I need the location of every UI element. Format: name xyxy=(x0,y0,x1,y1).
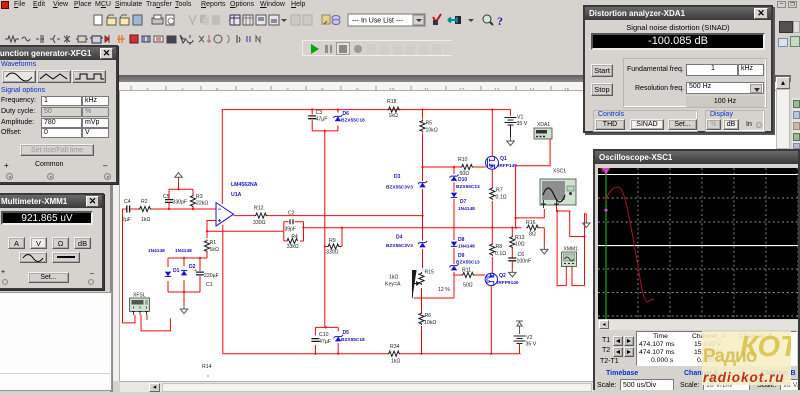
svg-text:D9: D9 xyxy=(458,253,465,259)
svg-text:50Ω: 50Ω xyxy=(463,283,473,289)
wire XFG1 minus stub xyxy=(146,315,148,320)
svg-text:BZX55C13: BZX55C13 xyxy=(456,260,480,266)
ground scope xyxy=(582,219,591,228)
wire C10 D5 box top xyxy=(315,326,338,328)
node xmm tap xyxy=(556,210,558,212)
svg-text:IRFP9140: IRFP9140 xyxy=(497,280,519,286)
wire plus input down xyxy=(207,221,216,239)
wire D4 to R15 xyxy=(422,249,424,268)
svg-text:R15: R15 xyxy=(425,270,435,276)
svg-text:1N4148: 1N4148 xyxy=(458,206,475,212)
svg-text:10Ω: 10Ω xyxy=(515,242,525,248)
node R9 tap xyxy=(341,227,343,229)
resistor R34 xyxy=(388,351,401,356)
wire V2 to rail xyxy=(519,344,521,354)
wire R6 to rail xyxy=(421,326,423,354)
wire D5 bottom lead xyxy=(337,343,339,354)
ground R16 xyxy=(540,245,549,254)
svg-text:R1: R1 xyxy=(210,240,217,246)
resistor R4 xyxy=(287,238,298,243)
capacitor C4 xyxy=(127,206,130,213)
svg-text:C6: C6 xyxy=(518,252,525,258)
top dark border of workspace xyxy=(110,75,791,82)
wire node to R8 xyxy=(491,228,493,244)
node box bottom xyxy=(324,130,326,132)
magnifier + help xyxy=(483,15,491,23)
wire XMM1 right lead xyxy=(572,237,585,286)
wire top supply rail xyxy=(222,109,511,111)
wire op-amp output xyxy=(234,215,255,217)
svg-text:LM4562NA: LM4562NA xyxy=(231,182,258,188)
svg-text:R34: R34 xyxy=(390,344,400,350)
wire C6 to ground xyxy=(511,261,513,269)
wire XMM1 left lead xyxy=(557,211,566,286)
ERC / transfer icons xyxy=(433,14,441,22)
svg-text:R13: R13 xyxy=(515,235,525,241)
svg-text:R2: R2 xyxy=(141,199,148,205)
waveform channel A xyxy=(606,187,654,302)
wire C3 D6 box xyxy=(312,110,338,131)
ground clamp xyxy=(180,305,189,314)
svg-text:1N4148: 1N4148 xyxy=(458,244,475,250)
svg-text:1N4148: 1N4148 xyxy=(148,248,165,254)
wire R8 to Q2 source xyxy=(491,257,493,273)
In Use List combo xyxy=(348,14,425,26)
svg-text:100nF: 100nF xyxy=(517,259,532,265)
wire gate line xyxy=(423,166,463,168)
svg-text:12 %: 12 % xyxy=(438,287,450,293)
wire bottom rail right xyxy=(401,353,521,355)
wire D9 bottom lead xyxy=(453,272,455,275)
svg-text:D7: D7 xyxy=(460,199,467,205)
svg-text:V2: V2 xyxy=(526,335,532,341)
wire R5 top lead xyxy=(422,110,424,119)
capacitor C7 39pF xyxy=(290,219,293,224)
zener D9 BZX55C13 xyxy=(451,266,457,271)
wire to ground xyxy=(183,292,185,307)
ground V1 xyxy=(506,137,515,146)
svg-text:0.1Ω: 0.1Ω xyxy=(495,251,506,257)
terminal arrow V2 xyxy=(516,321,523,334)
wire D10-D7 xyxy=(453,183,455,192)
wire op-amp V+ to top rail xyxy=(221,110,223,204)
svg-text:C2: C2 xyxy=(288,211,295,217)
battery V1 xyxy=(505,118,517,126)
instrument XFG1 icon xyxy=(130,298,150,315)
svg-text:1kΩ: 1kΩ xyxy=(389,113,398,119)
transistor Q1 IRFP140 xyxy=(486,156,499,169)
wire XFG1 common xyxy=(141,315,170,331)
readouts xyxy=(636,331,797,366)
scope display xyxy=(598,168,799,319)
svg-text:R7: R7 xyxy=(496,188,503,194)
wire main output node xyxy=(304,227,521,229)
svg-text:XSC1: XSC1 xyxy=(553,169,566,175)
wire C5 bottom lead xyxy=(168,203,170,209)
svg-text:XFSL: XFSL xyxy=(133,293,146,299)
resistor R9 xyxy=(327,244,340,249)
resistor R5 xyxy=(420,120,425,133)
wire long vertical feedback column xyxy=(324,131,326,328)
diode D1 1N4148 xyxy=(165,272,171,277)
wire scope B to ground loop xyxy=(557,206,587,237)
resistor R12 xyxy=(255,213,268,218)
wire Q1 source to R7 xyxy=(491,169,493,187)
svg-text:2µF: 2µF xyxy=(122,217,131,223)
svg-text:1kΩ: 1kΩ xyxy=(391,359,400,365)
bottom controls xyxy=(606,370,638,377)
wire stub xyxy=(134,314,136,316)
wire XDA1 input xyxy=(516,139,551,228)
wire R9 left lead xyxy=(325,246,328,248)
svg-text:C1: C1 xyxy=(206,282,213,288)
svg-text:BZX55C13: BZX55C13 xyxy=(456,184,480,190)
zener D5 BZX55C18 xyxy=(335,337,341,342)
svg-text:R18: R18 xyxy=(387,99,397,105)
wire D1 leads xyxy=(167,258,169,292)
wire op-amp V- to bottom rail xyxy=(222,225,224,354)
canvas white xyxy=(120,91,776,381)
node R7R8 xyxy=(491,227,493,229)
wire R13 to C6 xyxy=(511,249,513,258)
wire D7 to D8 xyxy=(453,199,455,240)
wire clamp bottom xyxy=(168,291,200,293)
capacitor C3 xyxy=(308,116,316,119)
wire C2 to zener column xyxy=(291,215,422,217)
capacitor C6 xyxy=(508,258,516,261)
node R13 tap xyxy=(511,227,513,229)
wire C1 leads xyxy=(199,258,201,292)
wire R11 to Q2 gate xyxy=(475,274,486,276)
wire gate to D3 xyxy=(422,167,424,181)
wire node to D4 xyxy=(422,216,424,241)
node scope A xyxy=(515,217,517,219)
node xmm tap2 xyxy=(583,235,585,237)
svg-text:D5: D5 xyxy=(343,330,350,336)
node R9 column xyxy=(324,245,326,247)
svg-text:R12: R12 xyxy=(254,206,264,212)
svg-text:R4: R4 xyxy=(291,234,298,240)
wire box to output node xyxy=(302,227,304,229)
wire ground stem scope xyxy=(585,214,587,219)
node clamp top xyxy=(183,257,185,259)
node D10 top xyxy=(453,166,455,168)
node C3 top xyxy=(311,109,313,111)
svg-text:BZX55C18: BZX55C18 xyxy=(341,118,365,124)
wire ground stem xyxy=(178,181,180,189)
svg-text:U1A: U1A xyxy=(231,192,242,198)
svg-text:C3: C3 xyxy=(316,110,323,116)
svg-text:IRFP140: IRFP140 xyxy=(498,163,517,169)
sim toolbar xyxy=(302,40,452,56)
wire R2 to op-amp minus input xyxy=(152,208,217,210)
wire C10 leads xyxy=(314,327,316,353)
node C10 bottom xyxy=(314,353,316,355)
capacitor C1 220uF xyxy=(196,272,204,275)
svg-text:22kΩ: 22kΩ xyxy=(196,201,208,207)
wire R7 to output node xyxy=(491,201,493,228)
svg-text:1N4148: 1N4148 xyxy=(175,248,192,254)
node clamp bottom xyxy=(183,291,185,293)
cut/copy/paste grayed xyxy=(189,15,196,25)
wire D5 top lead xyxy=(337,327,339,331)
svg-text:1kΩ: 1kΩ xyxy=(210,247,219,253)
wire R5 to gate line xyxy=(422,134,424,168)
node D6 top xyxy=(337,109,339,111)
svg-text:35 V: 35 V xyxy=(526,342,537,348)
svg-text:R9: R9 xyxy=(329,238,336,244)
node D5 bottom xyxy=(337,353,339,355)
svg-text:BZX55C18: BZX55C18 xyxy=(341,337,365,343)
wire D10 top lead xyxy=(453,167,455,174)
svg-text:35 V: 35 V xyxy=(517,121,528,127)
zener D10 BZX55C13 xyxy=(451,176,457,181)
svg-text:C10: C10 xyxy=(319,332,329,338)
resistor R13 xyxy=(510,236,515,249)
wire scope A tap xyxy=(516,209,544,218)
ground C6 xyxy=(508,268,517,277)
instrument XSC1 icon xyxy=(540,179,576,208)
svg-text:10kΩ: 10kΩ xyxy=(424,320,436,326)
node C1 top xyxy=(199,257,201,259)
svg-text:220µF: 220µF xyxy=(204,273,219,279)
node sense tap xyxy=(515,227,517,229)
svg-text:8Ω: 8Ω xyxy=(529,232,536,238)
wire R4-C7 box xyxy=(284,222,304,241)
diode D7 1N4148 xyxy=(451,193,457,198)
wire Q2 drain to rail xyxy=(490,286,492,354)
svg-text:C4: C4 xyxy=(124,199,131,205)
wire D8 to D9 xyxy=(453,248,455,264)
svg-text:330pF: 330pF xyxy=(173,200,188,206)
resistor R1 xyxy=(204,240,209,253)
svg-text:Q1: Q1 xyxy=(500,156,507,162)
potentiometer R15 xyxy=(419,272,424,285)
resistor R3 xyxy=(190,195,195,208)
scrollbar xyxy=(598,320,799,330)
wire D9 to R11 xyxy=(454,274,463,276)
instrument XDA1 icon xyxy=(534,128,552,139)
node R6 bottom xyxy=(420,353,422,355)
svg-text:R8: R8 xyxy=(496,244,503,250)
wire R15 to R6 xyxy=(421,288,423,312)
resistor R11 xyxy=(462,272,475,277)
wire R10 to Q1 gate xyxy=(474,166,486,168)
svg-text:D1: D1 xyxy=(173,268,180,274)
wire feedback to R4 box xyxy=(207,230,283,232)
svg-text:D6: D6 xyxy=(343,111,350,117)
resistor R6 xyxy=(419,312,424,325)
wire D3 to node xyxy=(422,189,424,216)
resistor R10 xyxy=(461,164,474,169)
svg-text:39pF: 39pF xyxy=(285,226,296,232)
node Q1 drain top xyxy=(491,109,493,111)
node gate line left xyxy=(421,166,423,168)
svg-text:33kΩ: 33kΩ xyxy=(287,244,299,250)
svg-text:1kΩ: 1kΩ xyxy=(141,217,150,223)
node box top xyxy=(325,326,327,328)
transistor Q2 IRFP9140 xyxy=(485,273,497,286)
zener D4 BZX55C3V3 xyxy=(419,243,425,248)
node feedback xyxy=(206,230,208,232)
print/preview xyxy=(152,18,163,24)
svg-text:47µF: 47µF xyxy=(319,339,331,345)
right sliver: window buttons / scrollbar / instrument strip xyxy=(775,10,800,150)
wire XFG1 plus to C4 input xyxy=(123,209,136,323)
wire Q1 drain xyxy=(491,110,493,157)
svg-text:D3: D3 xyxy=(394,174,401,180)
svg-text:D2: D2 xyxy=(189,264,196,270)
wire C5 top to ground line xyxy=(169,189,193,199)
wire R1 bottom lead xyxy=(206,253,208,259)
battery V2 xyxy=(514,336,526,344)
svg-text:XMM1: XMM1 xyxy=(564,247,579,253)
svg-text:V1: V1 xyxy=(517,115,523,121)
svg-text:BZX55C3V3: BZX55C3V3 xyxy=(386,185,413,191)
vertical ruler xyxy=(113,82,120,381)
canvas h-scrollbar xyxy=(120,381,776,392)
resistor R2 xyxy=(139,206,152,211)
svg-text:R11: R11 xyxy=(462,268,471,274)
zener D6 BZX55C18 xyxy=(335,116,341,121)
op-amp U1A LM4562NA xyxy=(216,203,234,227)
svg-text:D10: D10 xyxy=(458,177,467,183)
svg-text:330Ω: 330Ω xyxy=(253,220,266,226)
wire R16 to ground xyxy=(521,228,544,246)
trigger markers xyxy=(600,168,605,173)
svg-text:R5: R5 xyxy=(426,121,433,127)
wire R12 to C2 xyxy=(268,215,292,217)
svg-text:R10: R10 xyxy=(458,157,468,163)
wire C4 left lead xyxy=(123,208,127,210)
new/open/save xyxy=(94,15,102,25)
svg-text:Key=A: Key=A xyxy=(385,282,401,288)
wire D2 leads xyxy=(183,258,185,292)
resistor R7 xyxy=(490,187,495,200)
instruments vertical strip xyxy=(792,98,800,150)
svg-text:47µF: 47µF xyxy=(316,117,328,123)
diode D8 1N4148 xyxy=(451,242,457,247)
svg-text:R6: R6 xyxy=(425,313,432,319)
node R5 top xyxy=(421,109,423,111)
capacitor C10 xyxy=(311,339,319,342)
node D4 cross xyxy=(421,227,423,229)
node Q2 drain bottom xyxy=(490,353,492,355)
resistor R18 xyxy=(387,107,400,112)
pot R15 wiper xyxy=(412,271,419,299)
wire R3 leads xyxy=(192,189,194,209)
wire clamp top xyxy=(168,257,207,259)
resistor R8 xyxy=(490,243,495,256)
node R3 tap xyxy=(192,208,194,210)
svg-text:Q2: Q2 xyxy=(499,273,506,279)
wire R13 top lead xyxy=(511,228,513,236)
svg-text:330Ω: 330Ω xyxy=(326,250,339,256)
node ground line xyxy=(177,188,179,190)
undo/redo xyxy=(229,18,238,21)
svg-text:R14: R14 xyxy=(202,364,212,370)
diode D2 1N4148 xyxy=(181,271,187,276)
project window icons xyxy=(230,15,240,25)
svg-text:C5: C5 xyxy=(163,194,170,200)
wire R9 to node xyxy=(340,228,342,247)
ground input filter xyxy=(174,173,183,182)
svg-text:R16: R16 xyxy=(526,220,536,226)
svg-text:D8: D8 xyxy=(458,237,465,243)
wire bottom rail left xyxy=(223,353,388,355)
node C5 tap xyxy=(168,208,170,210)
svg-text:0.1Ω: 0.1Ω xyxy=(496,195,507,201)
wire C4 to R2 xyxy=(130,208,139,210)
zener D3 BZX55C3V3 xyxy=(419,183,425,188)
svg-text:R3: R3 xyxy=(196,194,203,200)
resistor R16 xyxy=(526,225,539,230)
node zener mid xyxy=(421,215,423,217)
wire wiper to D9 node xyxy=(414,275,454,298)
db icons xyxy=(322,15,330,24)
horizontal ruler xyxy=(113,82,776,91)
svg-text:XDA1: XDA1 xyxy=(537,122,550,128)
svg-text:1kΩ: 1kΩ xyxy=(389,275,398,281)
svg-text:10kΩ: 10kΩ xyxy=(426,128,438,134)
svg-text:BZX55C3V3: BZX55C3V3 xyxy=(386,243,413,249)
capacitor C5 xyxy=(165,200,173,203)
instrument XMM1 icon xyxy=(562,252,577,269)
wire V1 top lead xyxy=(510,110,512,116)
svg-text:D4: D4 xyxy=(396,235,403,241)
vertical scrollbar of canvas xyxy=(776,77,790,89)
